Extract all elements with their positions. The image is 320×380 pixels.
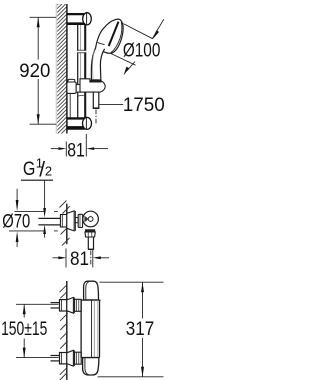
svg-text:G: G [23,159,36,180]
svg-text:1750: 1750 [123,95,165,116]
svg-text:317: 317 [126,319,155,340]
svg-text:920: 920 [19,61,50,82]
svg-text:81: 81 [67,140,85,161]
svg-text:2: 2 [45,163,52,178]
svg-text:81: 81 [70,249,89,270]
svg-text:Ø100: Ø100 [123,41,161,62]
svg-text:150±15: 150±15 [1,319,47,340]
svg-text:Ø70: Ø70 [2,212,30,233]
